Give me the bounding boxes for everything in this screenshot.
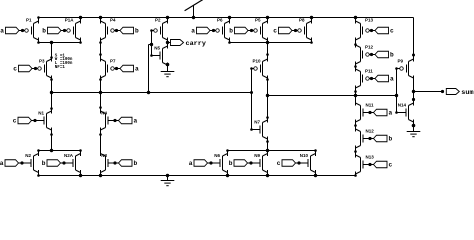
junction (80.5,175.5)	[79, 174, 82, 177]
junction (100.5,17.5)	[99, 16, 102, 19]
svg-text:N2: N2	[25, 153, 31, 158]
wire carry node to flag	[168, 42, 171, 44]
wire N14 drain to sum node	[413, 92, 415, 106]
junction (167.5,64.5)	[166, 63, 170, 67]
svg-text:c: c	[13, 66, 17, 73]
transistor P12 (PMOS)	[356, 45, 374, 64]
svg-text:a: a	[390, 76, 394, 83]
svg-text:N1: N1	[38, 111, 44, 116]
transistor N12 (NMOS)	[356, 129, 375, 148]
junction (51.5,42.5)	[50, 41, 53, 44]
svg-text:sum: sum	[461, 89, 473, 97]
svg-text:N4: N4	[101, 111, 107, 116]
wire P11 drain to sum_bar	[355, 86, 357, 96]
wire N6 drain to mid rail	[227, 151, 229, 157]
wire N3 source to GND rail	[100, 170, 102, 176]
svg-text:a: a	[0, 28, 4, 35]
junction (167.5,42.5)	[166, 41, 169, 44]
junction (167.5,175.5)	[166, 174, 169, 177]
junction (355.5,125.5)	[354, 124, 357, 127]
junction (251.5,68.5)	[250, 67, 253, 70]
junction (151.5,44.5)	[150, 43, 153, 46]
svg-text:b: b	[135, 28, 139, 35]
output flag sum	[446, 89, 473, 97]
svg-text:N11: N11	[366, 103, 375, 108]
junction (100.5,42.5)	[99, 41, 102, 44]
junction VDD/power	[192, 16, 195, 19]
svg-text:a: a	[189, 160, 193, 167]
wire P13/P12 series link	[355, 38, 357, 48]
junction (267.5,175.5)	[266, 174, 269, 177]
svg-text:P6: P6	[217, 18, 223, 23]
junction (229.5,17.5)	[228, 16, 231, 19]
svg-text:c: c	[389, 162, 393, 169]
input flag c for N13	[368, 161, 392, 168]
input flag c for N1	[13, 117, 37, 124]
input flag a for P1	[0, 27, 24, 34]
wire node carry_bar rail	[52, 92, 252, 94]
ground (carry inverter)	[161, 72, 175, 77]
junction (100.5,54.5)	[99, 53, 102, 56]
svg-text:b: b	[134, 160, 138, 167]
wire N5 source to ground	[167, 63, 169, 72]
transistor N9 (NMOS)	[251, 153, 268, 172]
svg-text:N2A: N2A	[64, 153, 74, 158]
junction (51.5,150.5)	[50, 149, 53, 152]
wire P3 source to n2	[51, 43, 53, 62]
wire VDD rail	[39, 17, 414, 19]
transistor N10 (NMOS)	[299, 153, 316, 172]
wire P10 source to n3	[267, 43, 269, 62]
input flag a for N4	[113, 117, 137, 124]
junction (413.5,91.5)	[412, 90, 415, 93]
junction (355.5,151.5)	[354, 150, 357, 153]
junction (80.5,42.5)	[79, 41, 82, 44]
junction (267.5,95.5)	[266, 94, 269, 97]
wire N11 drain to sum_bar	[355, 96, 357, 106]
wire N9 drain to mid rail	[267, 151, 269, 157]
wire carry_bar to P10/N7 gates riser	[251, 69, 253, 130]
transistor P4 (PMOS)	[101, 18, 117, 41]
wire carry inverter input riser	[151, 31, 153, 56]
junction (229.5,42.5)	[228, 41, 231, 44]
junction (267.5,79.5)	[266, 78, 269, 81]
wire P2 drain to carry node	[167, 38, 169, 43]
wire carry_bar branch riser	[148, 45, 150, 93]
junction (100.5,134.5)	[99, 133, 102, 136]
wire P9 drain to sum node	[413, 76, 415, 92]
junction (267.5,42.5)	[266, 41, 269, 44]
wire GND rail	[39, 175, 356, 177]
svg-text:P4: P4	[110, 18, 116, 23]
input flag a for P11	[370, 75, 394, 82]
wire N2 source to GND	[38, 170, 40, 176]
input flag b for N12	[368, 135, 392, 142]
junction (38.5,175.5)	[37, 174, 40, 177]
wire P10 drain to sum_bar	[267, 76, 269, 96]
wire right NMOS mid rail	[228, 150, 316, 152]
svg-text:b: b	[389, 136, 393, 143]
wire node n3 rail	[230, 42, 312, 44]
wire P5 drain to n3	[267, 38, 269, 43]
wire P13 source to VDD	[355, 18, 357, 24]
junction (151.5,30.5)	[150, 29, 153, 32]
junction (267.5,17.5)	[266, 16, 269, 19]
wire N14 source to ground	[413, 120, 415, 132]
junction (355.5,17.5)	[354, 16, 357, 19]
svg-text:a: a	[134, 118, 138, 125]
junction (227.5,150.5)	[226, 149, 229, 152]
junction (396.5,95.5)	[395, 94, 398, 97]
wire N2A source to GND	[80, 170, 82, 176]
transistor P2 (PMOS carry inverter)	[152, 18, 168, 41]
svg-text:c: c	[390, 28, 394, 35]
wire P4 source to VDD	[100, 18, 102, 24]
wire node sum_bar rail	[268, 95, 397, 97]
value labels P3 (W/L annotation)	[55, 54, 73, 70]
svg-text:N14: N14	[398, 103, 407, 108]
junction (148.5,92.5)	[147, 91, 150, 94]
junction (100.5,175.5)	[99, 174, 102, 177]
input flag b for N3	[113, 160, 137, 167]
input flag a for N11	[368, 109, 392, 116]
wire sum output node	[414, 91, 443, 93]
input flag b for P4	[115, 27, 139, 34]
transistor P13 (PMOS)	[356, 18, 374, 41]
wire N13 source to GND rail	[355, 172, 357, 176]
junction (51.5,108.5)	[50, 107, 53, 110]
svg-text:P11: P11	[365, 69, 373, 74]
transistor P8 (PMOS)	[296, 18, 312, 41]
wire P8 drain to n3	[311, 38, 313, 43]
junction (355.5,66.5)	[354, 65, 357, 68]
junction (100.5,92.5)	[99, 91, 102, 94]
input flag b for N9	[229, 160, 253, 167]
junction (396.5,68.5)	[395, 67, 398, 70]
junction (38.5,42.5)	[37, 41, 40, 44]
junction (267.5,117.5)	[266, 116, 269, 119]
input flag c for P8	[273, 27, 297, 34]
junction (311.5,42.5)	[310, 41, 313, 44]
wire N1 drain to left mid rail	[51, 128, 53, 151]
svg-text:b: b	[42, 28, 46, 35]
svg-text:N9: N9	[254, 153, 260, 158]
junction (51.5,134.5)	[50, 133, 53, 136]
transistor P11 (PMOS)	[356, 69, 374, 88]
junction (355.5,175.5)	[354, 174, 357, 177]
wire P4/P7 series link	[100, 43, 102, 62]
svg-text:carry: carry	[186, 40, 206, 48]
svg-text:P7: P7	[110, 59, 116, 64]
svg-text:c: c	[277, 160, 281, 167]
junction (442.5,91.5)	[441, 90, 444, 93]
junction (413.5,55)	[412, 54, 415, 57]
junction (227.5,175.5)	[226, 174, 229, 177]
junction (267.5,150.5)	[266, 149, 269, 152]
input flag a for N6	[189, 160, 213, 167]
junction (38.5,17.5)	[37, 16, 40, 19]
wire N11/N12 series link	[355, 120, 357, 132]
transistor N13 (NMOS)	[356, 155, 375, 174]
wire N6 source to GND	[227, 170, 229, 176]
transistor N6 (NMOS)	[211, 153, 228, 172]
svg-text:b: b	[390, 52, 394, 59]
svg-text:N13: N13	[366, 155, 375, 160]
junction (355.5,44.5)	[354, 43, 357, 46]
junction (80.5,17.5)	[79, 16, 82, 19]
input flag b for P5	[229, 27, 253, 34]
transistor N7 (NMOS, gate carry_bar)	[251, 120, 268, 139]
wire sum inverter input riser	[396, 69, 398, 113]
junction (311.5,17.5)	[310, 16, 313, 19]
junction (51.5,57.5)	[50, 56, 53, 59]
svg-text:P2: P2	[155, 18, 161, 23]
transistor P5 (PMOS)	[252, 18, 268, 41]
junction (267.5,54.5)	[266, 53, 269, 56]
svg-text:b: b	[42, 160, 46, 167]
svg-text:N12: N12	[366, 129, 375, 134]
junction (251.5,92.5)	[250, 91, 253, 94]
input flag c for P3	[13, 65, 37, 72]
svg-text:N10: N10	[300, 153, 309, 158]
junction (151.5,55.5)	[150, 54, 153, 57]
transistor P6 (PMOS)	[214, 18, 230, 41]
wire P6 drain to n3	[229, 38, 231, 43]
wire P8 source to VDD	[311, 18, 313, 24]
svg-text:b: b	[229, 160, 233, 167]
wire N2 drain to mid rail	[38, 151, 40, 157]
svg-text:a: a	[135, 66, 139, 73]
svg-text:P10: P10	[252, 59, 261, 64]
input flag b for P12	[370, 51, 394, 58]
wire N9 source to GND	[267, 170, 269, 176]
svg-text:P13: P13	[365, 18, 374, 23]
svg-text:P8: P8	[299, 18, 305, 23]
output flag carry	[171, 40, 206, 48]
input flag c for N10	[277, 160, 301, 167]
input flag a for N2	[0, 160, 24, 167]
input flag a for P7	[115, 65, 139, 72]
junction (396.5,112.5)	[395, 111, 398, 114]
svg-text:a: a	[0, 160, 4, 167]
wire N10 drain to mid rail	[315, 151, 317, 157]
wire P4 drain	[100, 38, 102, 43]
transistor N3 (NMOS)	[101, 153, 116, 172]
svg-text:N5: N5	[154, 46, 160, 51]
input flag b for P1A	[42, 27, 66, 34]
wire P1 drain to n2	[38, 38, 40, 43]
wire P1 source to VDD	[38, 18, 40, 24]
svg-text:a: a	[191, 28, 195, 35]
svg-text:P1: P1	[26, 18, 32, 23]
junction (355.5,91.5)	[354, 90, 357, 93]
wire N5 drain to carry node	[167, 43, 169, 49]
svg-text:P12: P12	[365, 45, 374, 50]
svg-text:c: c	[13, 118, 17, 125]
junction (100.5,107.5)	[99, 106, 102, 109]
junction (413.5,99.5)	[412, 98, 415, 101]
wire node n2 rail	[39, 42, 81, 44]
wire N12/N13 series link	[355, 146, 357, 158]
wire N7 drain to sum_bar	[267, 96, 269, 123]
svg-text:P1A: P1A	[65, 18, 75, 23]
wire P6 source to VDD	[229, 18, 231, 24]
svg-text:P5: P5	[255, 18, 261, 23]
wire N7 source to right mid rail	[267, 137, 269, 151]
svg-text:N7: N7	[254, 120, 260, 125]
transistor N14 (NMOS sum inverter)	[397, 103, 414, 122]
wire N4 to N3 series link	[100, 128, 102, 157]
transistor N5 (NMOS carry inverter)	[151, 46, 168, 65]
junction (38.5,150.5)	[37, 149, 40, 152]
transistor P1A (PMOS)	[65, 18, 81, 41]
svg-text:N6: N6	[214, 153, 220, 158]
wire P1A source to VDD	[80, 18, 82, 24]
wire VDD corner down to P9 source	[413, 18, 415, 62]
transistor P1 (PMOS)	[23, 18, 39, 41]
junction (167.5,17.5)	[166, 16, 169, 19]
input flag b for N2A	[42, 160, 66, 167]
junction (355.5,95.5)	[354, 94, 357, 97]
wire left NMOS mid rail	[39, 150, 81, 152]
input flag a for P6	[191, 27, 215, 34]
junction (51.5,79.5)	[50, 78, 53, 81]
svg-text:c: c	[273, 28, 277, 35]
wire P2 source to VDD	[167, 18, 169, 24]
ground (GND rail)	[161, 176, 175, 186]
ground (sum inverter)	[407, 132, 421, 137]
wire P1A drain to n2	[80, 38, 82, 43]
junction (100.5,79.5)	[99, 78, 102, 81]
svg-text:NF=1: NF=1	[55, 66, 66, 70]
junction (251.5,129.5)	[250, 128, 253, 131]
junction (315.5,150.5)	[314, 149, 317, 152]
wire P7 drain to carry_bar and N4	[100, 76, 102, 114]
transistor N1 (NMOS)	[35, 111, 52, 130]
wire P12/P11 series link	[355, 62, 357, 72]
transistor P9 (PMOS sum inverter)	[397, 59, 413, 78]
svg-text:b: b	[229, 28, 233, 35]
transistor N2 (NMOS)	[22, 153, 39, 172]
junction (315.5,175.5)	[314, 174, 317, 177]
junction (267.5,141.5)	[266, 140, 269, 143]
wire N2A drain to mid rail	[80, 151, 82, 157]
transistor P7 (PMOS)	[101, 59, 117, 78]
svg-text:P3: P3	[39, 59, 45, 64]
transistor N2A (NMOS)	[64, 153, 81, 172]
transistor N11 (NMOS)	[356, 103, 375, 122]
svg-text:P9: P9	[397, 59, 403, 64]
junction (51.5,92.5)	[50, 91, 53, 94]
transistor P10 (PMOS, gate carry_bar)	[252, 59, 268, 78]
wire N10 source to GND	[315, 170, 317, 176]
wire P3 drain to carry_bar and N1	[51, 76, 53, 114]
wire carry inverter gate link	[149, 44, 152, 46]
svg-text:N3: N3	[101, 153, 107, 158]
junction (80.5,150.5)	[79, 149, 82, 152]
input flag c for P13	[370, 27, 394, 34]
transistor P3 (PMOS)	[36, 59, 52, 78]
transistor N4 (NMOS)	[101, 111, 116, 130]
power symbol	[185, 0, 203, 17]
svg-text:a: a	[389, 110, 393, 117]
wire P5 source to VDD	[267, 18, 269, 24]
junction (413.5,125.5)	[412, 124, 416, 128]
